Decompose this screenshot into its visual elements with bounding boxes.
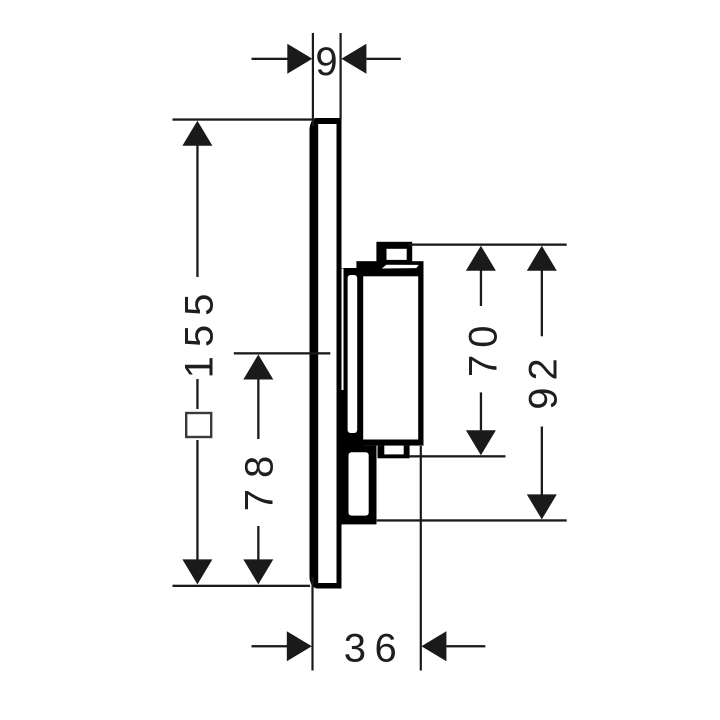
dimension 70: top arrowhead: [466, 246, 496, 271]
dimension 155: bottom arrowhead: [182, 559, 212, 584]
dimension 92: line upper segment: [541, 270, 543, 336]
functional unit sleeve (between plate and body): [342, 268, 364, 452]
dimension 155: line mid segment: [196, 379, 198, 409]
dimension 78: top extension line: [234, 352, 330, 354]
svg-text:36: 36: [344, 627, 406, 671]
dimension 92: bottom arrowhead: [527, 494, 557, 519]
svg-text:9: 9: [315, 40, 337, 84]
gap between plate and sleeve: [342, 269, 344, 391]
wall plate (escutcheon, side view): [310, 118, 342, 589]
dimension 92: line lower segment: [541, 427, 543, 495]
dimension 78: line upper segment: [257, 379, 259, 439]
square symbol: [186, 413, 211, 437]
dimension 78: top arrowhead: [243, 355, 273, 380]
dimension 9: left arrowhead: [287, 44, 312, 74]
dimension 36: right arrowhead: [421, 631, 446, 661]
dimension 155: top arrowhead: [182, 121, 212, 146]
body interior white: [363, 276, 418, 439]
lower housing: [337, 446, 377, 525]
svg-text:70: 70: [462, 318, 506, 377]
dimension 9: right arrow line: [366, 58, 400, 60]
dimension 70: bottom arrowhead: [466, 430, 496, 455]
dimension 36: right arrow line: [446, 645, 485, 647]
bottom flange: [378, 446, 410, 459]
dimension 155: line upper segment: [196, 145, 198, 277]
dimension 70: bottom extension line: [410, 455, 506, 457]
flange highlight sliver: [382, 265, 419, 269]
dimension 36: right extension line: [420, 446, 422, 671]
dimension 36: left arrowhead: [287, 631, 312, 661]
lower housing interior white: [349, 452, 369, 515]
dimension 78: line lower segment: [257, 526, 259, 561]
sleeve interior white: [348, 275, 358, 433]
svg-text:78: 78: [238, 445, 282, 512]
dimension 70: line upper segment: [480, 270, 482, 306]
cartridge body: [356, 261, 423, 445]
dimension 70: line lower segment: [480, 392, 482, 430]
dimension 9: right extension line: [340, 33, 342, 119]
svg-text:155: 155: [178, 285, 222, 379]
dimension 78: bottom arrowhead: [243, 559, 273, 584]
svg-text:92: 92: [522, 351, 566, 410]
dimension 36: left extension line: [311, 577, 313, 671]
dimension 9: left extension line: [312, 33, 314, 126]
stem cap inner white: [387, 249, 407, 260]
bottom flange notch white: [384, 446, 403, 455]
dimension 92: top arrowhead: [527, 246, 557, 271]
dimension 155: line lower segment: [196, 440, 198, 561]
dimension 92: bottom extension line: [377, 519, 567, 521]
dimension 155: top extension line: [173, 118, 313, 120]
stem cap on top: [376, 242, 412, 262]
dimension 155/78: bottom extension line: [173, 585, 311, 587]
dimension 70/92: top extension line: [408, 244, 566, 246]
plate interior white: [318, 124, 336, 583]
dimension 36: left arrow line: [252, 645, 288, 647]
dimension 9: left arrow line: [252, 58, 289, 60]
dimension 9: right arrowhead: [341, 44, 366, 74]
